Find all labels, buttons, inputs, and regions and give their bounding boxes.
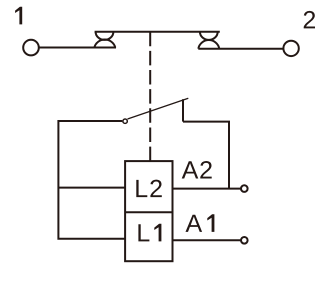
- wire terminal1 to left contact: [39, 47, 116, 49]
- relay coil box: [125, 161, 172, 261]
- terminal 1: [23, 40, 39, 56]
- coil label L1: [138, 224, 161, 242]
- switch fixed terminal: [182, 99, 184, 121]
- coil box divider: [125, 211, 172, 213]
- pin label 1: [15, 7, 22, 25]
- pin label 2: [304, 11, 315, 29]
- terminal 2: [283, 41, 298, 56]
- terminal A1: [241, 237, 248, 244]
- movable bridge contact bar: [95, 31, 220, 33]
- left rail wire: [58, 121, 125, 239]
- left bridge contact cup: [96, 32, 114, 40]
- switch blade: [128, 98, 189, 119]
- wire right contact to terminal2: [198, 48, 283, 50]
- actuator link (dashed): [149, 32, 151, 161]
- wire A2: [173, 188, 242, 190]
- wire A1: [173, 239, 242, 241]
- right fixed contact dome: [198, 40, 219, 49]
- label A2: [182, 161, 212, 179]
- switch pivot contact: [123, 119, 127, 123]
- left fixed contact dome: [94, 40, 115, 48]
- coil label L2: [136, 180, 162, 198]
- left coil stub wire: [58, 187, 125, 189]
- wire switch to A2 drop: [183, 122, 229, 189]
- right bridge contact cup: [200, 32, 218, 40]
- terminal A2: [241, 185, 248, 192]
- label A1: [186, 214, 215, 232]
